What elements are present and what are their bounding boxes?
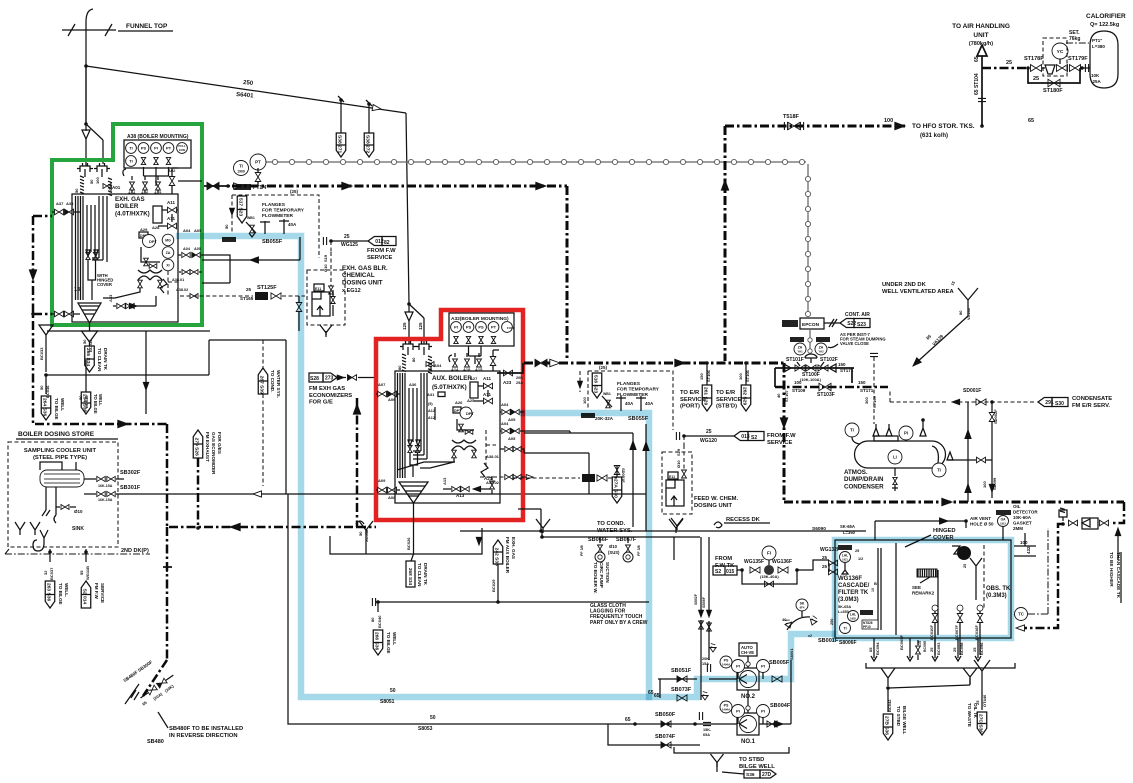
svg-text:L=350: L=350	[838, 610, 849, 614]
svg-text:A04: A04	[501, 402, 509, 407]
svg-text:SAMPLING COOLER UNIT: SAMPLING COOLER UNIT	[24, 448, 97, 454]
svg-text:CONT. AIR: CONT. AIR	[845, 312, 870, 318]
svg-text:A38.02: A38.02	[486, 480, 500, 485]
svg-text:A05: A05	[508, 417, 516, 422]
st125f drop valve	[298, 296, 300, 302]
svg-text:NO.1: NO.1	[741, 739, 756, 745]
sb001 relief manifold	[796, 599, 808, 611]
svg-text:WATER SYS.: WATER SYS.	[276, 370, 281, 398]
funnel inside obs tk	[970, 558, 982, 600]
condensate return heavy line	[783, 363, 786, 502]
svg-text:SERVICE: SERVICE	[100, 583, 105, 603]
boiler fw line from st165	[518, 508, 541, 510]
bottom nozzles	[138, 276, 162, 280]
svg-text:BC040: BC040	[377, 615, 382, 628]
svg-text:DETECTOR: DETECTOR	[1013, 510, 1038, 515]
100/432 dimension	[1014, 546, 1036, 556]
aux dashed internals	[486, 430, 496, 470]
svg-text:50: 50	[224, 224, 229, 229]
svg-text:TO STBD: TO STBD	[896, 706, 901, 727]
svg-text:SB073F: SB073F	[671, 687, 692, 693]
fuel oil line (heavy dash-dot) left side	[33, 216, 167, 424]
svg-text:A06: A06	[388, 397, 396, 402]
svg-text:UNDER 2ND DK: UNDER 2ND DK	[882, 282, 927, 288]
svg-text:264 S36: 264 S36	[41, 398, 47, 417]
svg-text:(3.0M3): (3.0M3)	[838, 597, 859, 603]
svg-text:PI: PI	[736, 709, 740, 714]
svg-text:25: 25	[822, 555, 828, 560]
up arrow to be higher	[1115, 528, 1121, 536]
instrument PI (A38)	[151, 143, 162, 154]
svg-text:TO WASTE: TO WASTE	[967, 703, 972, 727]
blowdown valve pair in boiler	[86, 252, 90, 259]
cooler connections	[40, 462, 76, 515]
black box MB116	[581, 413, 595, 418]
long drain header y531	[460, 530, 866, 532]
svg-text:SINK: SINK	[72, 526, 84, 532]
discharge riser	[790, 660, 792, 724]
svg-text:(631 ko/h): (631 ko/h)	[920, 133, 948, 139]
line to cascade tank	[797, 560, 829, 570]
aux econ coils	[413, 373, 427, 459]
svg-text:25: 25	[344, 234, 350, 240]
valve A38.02 dashed line	[505, 474, 513, 479]
top small valves A14 A16 A15	[123, 169, 126, 176]
aux column piping	[457, 419, 474, 430]
svg-text:266 S36: 266 S36	[373, 632, 379, 651]
svg-text:BC042: BC042	[887, 699, 892, 712]
svg-text:150: 150	[838, 362, 846, 367]
steam outlet A02 to header	[178, 180, 202, 182]
svg-text:A05: A05	[194, 247, 201, 251]
svg-text:PI: PI	[761, 709, 765, 714]
valve after tag 273	[337, 377, 346, 379]
funnel to stbd bilge	[881, 668, 895, 686]
svg-text:SB067F: SB067F	[616, 537, 637, 543]
steam riser from aux boiler junction up to HFO line	[724, 126, 727, 361]
svg-text:TO E/R: TO E/R	[716, 390, 736, 396]
svg-text:TO AIR HANDLING: TO AIR HANDLING	[952, 23, 1010, 30]
sb066f eductor	[598, 545, 603, 553]
svg-text:2ND DK(P): 2ND DK(P)	[121, 548, 149, 554]
svg-text:10K: 10K	[1091, 73, 1100, 78]
svg-text:SB06F: SB06F	[702, 596, 706, 608]
svg-text:REMARK2: REMARK2	[912, 591, 935, 596]
svg-text:A07: A07	[378, 382, 386, 387]
valve T518F	[788, 122, 800, 129]
svg-text:EXH. GAS: EXH. GAS	[511, 537, 516, 559]
sd002f drop	[991, 402, 993, 412]
svg-text:LI: LI	[893, 455, 897, 460]
svg-text:SB050F: SB050F	[655, 712, 676, 718]
aux blowdown valves	[408, 445, 412, 452]
funnel on header 1	[536, 519, 550, 533]
svg-text:ST180F: ST180F	[1043, 88, 1063, 94]
svg-text:FM EXH GAS: FM EXH GAS	[309, 386, 345, 392]
flowmeter flange symbols upper	[260, 219, 289, 234]
feed w chem dosing unit dashed box	[662, 452, 692, 514]
svg-text:5K-65A: 5K-65A	[838, 605, 851, 609]
relief on trap	[1059, 510, 1067, 517]
condenser LI	[888, 450, 902, 464]
check valve circles	[746, 662, 750, 666]
svg-text:TO BILGE: TO BILGE	[93, 394, 98, 414]
svg-text:55: 55	[79, 570, 84, 575]
svg-text:DOSING UNIT: DOSING UNIT	[342, 279, 383, 286]
svg-text:DPT: DPT	[149, 239, 158, 244]
svg-text:SEE: SEE	[912, 585, 921, 590]
svg-text:COVER: COVER	[97, 282, 112, 287]
instrument PI (A32)	[451, 322, 462, 333]
tag S38 272	[364, 133, 374, 157]
instrument PT (A38)	[163, 143, 174, 154]
svg-text:A11: A11	[167, 200, 176, 205]
valve pair A38.01 green	[182, 270, 190, 275]
tag 267 S39 to cond water sys	[262, 340, 264, 368]
svg-text:E11: E11	[669, 475, 675, 479]
svg-text:SERVICE: SERVICE	[716, 397, 741, 403]
line to calorifier heavy	[982, 67, 1028, 70]
svg-text:ST179F: ST179F	[1068, 56, 1088, 62]
svg-text:PART ONLY BY A CREW: PART ONLY BY A CREW	[590, 620, 648, 626]
svg-text:50: 50	[390, 688, 396, 694]
pump instruments no1	[720, 701, 732, 713]
svg-text:(25): (25)	[290, 189, 299, 194]
valve under A38 box	[166, 157, 170, 164]
svg-text:50: 50	[89, 179, 94, 184]
exhaust gas boiler A38 group highlight (green box)	[52, 124, 202, 325]
main vertical line x646 down from sb055f area	[645, 424, 647, 494]
tag 279 S26 fm exhaust gas economizer	[193, 430, 203, 458]
boiler bottom cone	[78, 303, 101, 323]
svg-text:(4.0T/HX7K): (4.0T/HX7K)	[115, 210, 150, 217]
svg-text:FOR G/ES: FOR G/ES	[217, 432, 222, 454]
svg-text:25: 25	[706, 429, 712, 435]
vertical line x633	[632, 433, 634, 527]
svg-text:A37: A37	[56, 201, 64, 206]
to waste oil tk tag	[981, 686, 983, 710]
condenser vessel	[855, 441, 946, 468]
aux top valves	[449, 355, 452, 362]
big Y waste oil	[974, 660, 990, 686]
arrow on diagonal	[372, 104, 381, 112]
svg-text:A01: A01	[112, 185, 121, 190]
svg-text:A28: A28	[152, 225, 160, 230]
svg-text:CIRC PUMP: CIRC PUMP	[599, 562, 604, 588]
aux contact element A38	[177, 143, 188, 154]
dashed enclosure temp flowmeter lower	[588, 371, 673, 430]
svg-text:ZA: ZA	[798, 346, 803, 350]
svg-text:PI: PI	[154, 146, 158, 151]
svg-text:(5): (5)	[428, 402, 433, 406]
svg-text:432: 432	[1026, 546, 1031, 554]
TC instrument	[1015, 608, 1028, 621]
svg-text:AUX. BOILER: AUX. BOILER	[432, 375, 472, 382]
svg-text:(PORT): (PORT)	[680, 404, 700, 410]
svg-text:A05: A05	[194, 228, 202, 233]
from fw service tag 012 82	[368, 237, 382, 246]
svg-text:A11: A11	[483, 376, 492, 381]
svg-text:DRAIN TK: DRAIN TK	[423, 563, 428, 586]
aux blowdown link	[420, 458, 454, 468]
svg-text:25: 25	[1006, 60, 1012, 66]
svg-text:015: 015	[726, 569, 735, 575]
arrowed dashed drops	[579, 371, 581, 392]
svg-text:(0.3M3): (0.3M3)	[986, 593, 1007, 599]
svg-text:ST109: ST109	[872, 395, 877, 408]
branch to second boiler nozzle	[86, 124, 103, 140]
svg-text:TC: TC	[1018, 612, 1024, 617]
svg-text:263 S36: 263 S36	[45, 583, 51, 602]
pipe from WG120	[684, 435, 734, 437]
svg-text:A38.01: A38.01	[172, 278, 184, 282]
auto ch-ve box	[739, 643, 757, 656]
svg-text:SB301F: SB301F	[120, 485, 141, 491]
pump no1 line	[608, 723, 737, 725]
steam line to HFO storage tanks	[725, 125, 905, 128]
svg-text:TO BILGE: TO BILGE	[58, 583, 63, 605]
water column piping	[141, 247, 160, 262]
drain drop arrows under tank	[873, 638, 875, 658]
instrument PT (A32)	[488, 322, 499, 333]
svg-text:PS: PS	[141, 146, 147, 151]
dosing unit feed valve	[329, 286, 334, 294]
aux gauge tubes	[397, 373, 399, 478]
squiggle break	[481, 564, 483, 566]
small valve cluster upper	[250, 225, 255, 233]
svg-text:FUNNEL TOP: FUNNEL TOP	[126, 23, 168, 30]
svg-text:SB066F: SB066F	[588, 537, 609, 543]
svg-text:L=380: L=380	[1092, 44, 1105, 49]
svg-text:A04: A04	[183, 247, 191, 251]
cascade bottom collection bracket	[866, 663, 1015, 668]
svg-text:SB302F: SB302F	[120, 470, 141, 476]
tag 242 S35 fm aux boiler	[497, 576, 499, 602]
float switch assembly left	[838, 545, 852, 550]
tank internal dividers	[895, 543, 897, 635]
valve A13 pair	[452, 486, 460, 491]
svg-text:S38 271: S38 271	[336, 135, 342, 154]
valve under A32 box	[466, 336, 470, 343]
svg-text:254 S36: 254 S36	[81, 394, 87, 413]
svg-text:WB1: WB1	[603, 392, 611, 396]
aux boiler shell	[395, 371, 500, 503]
svg-text:A36: A36	[409, 382, 417, 387]
dashed enclosure temp flowmeter upper	[232, 195, 319, 258]
svg-text:DRAIN TK: DRAIN TK	[103, 348, 108, 371]
valve under A32 box	[454, 336, 458, 343]
down arrow on dashed drop	[230, 208, 235, 215]
aux water tubes	[408, 388, 410, 442]
valve under A32 box	[491, 336, 495, 343]
svg-text:279 S26: 279 S26	[193, 438, 199, 457]
svg-text:40A: 40A	[288, 222, 297, 227]
svg-text:ZA: ZA	[166, 251, 171, 255]
steam dumping valve train	[775, 367, 854, 369]
svg-text:(STB'D): (STB'D)	[716, 404, 737, 410]
epcon to valves signal	[809, 329, 811, 352]
svg-text:6F4: 6F4	[800, 606, 805, 610]
svg-text:ST109: ST109	[792, 388, 806, 393]
svg-text:A32(BOILER MOUNTING): A32(BOILER MOUNTING)	[451, 316, 509, 322]
svg-text:50: 50	[82, 339, 87, 344]
condenser relief	[920, 428, 926, 436]
condenser drain valve	[894, 468, 896, 476]
steam outlet to A23	[497, 363, 523, 373]
drop to TO E/R SERVICE PORT	[706, 363, 708, 385]
svg-text:ST178F: ST178F	[1024, 56, 1044, 62]
svg-text:CASCADE/: CASCADE/	[838, 583, 870, 589]
filter hatched element	[917, 569, 937, 577]
aux boiler nozzles	[400, 341, 416, 350]
valve under A38 box	[141, 157, 145, 164]
svg-text:25: 25	[929, 647, 934, 652]
valve A01	[103, 184, 111, 189]
svg-text:A29: A29	[140, 227, 148, 232]
level gauge tube	[878, 548, 881, 630]
svg-text:A04: A04	[501, 421, 509, 426]
svg-text:S6090: S6090	[812, 526, 826, 532]
svg-text:FM EXHAUST: FM EXHAUST	[205, 432, 210, 462]
svg-text:BC094: BC094	[875, 642, 880, 655]
svg-text:WG136F: WG136F	[838, 576, 862, 582]
highlighted branch SB055F to cascade (blue)	[523, 413, 649, 697]
svg-text:FROM F.W: FROM F.W	[367, 248, 396, 254]
svg-text:1494A: 1494A	[722, 708, 730, 712]
svg-text:TO STBD: TO STBD	[739, 757, 764, 763]
svg-text:FLANGES: FLANGES	[262, 202, 286, 208]
svg-text:A13: A13	[442, 477, 447, 485]
A32 boiler mounting box	[449, 313, 514, 346]
svg-text:FI: FI	[767, 551, 771, 556]
black box MB126	[222, 237, 236, 242]
svg-text:27B S36: 27B S36	[883, 716, 889, 735]
svg-text:BC098: BC098	[959, 642, 964, 655]
safety valve springs	[80, 176, 84, 195]
svg-text:A15: A15	[475, 367, 483, 372]
valve A02 aux top right	[490, 357, 496, 366]
valve ST178F	[1026, 66, 1030, 70]
svg-text:25: 25	[246, 287, 252, 292]
pump instruments no2	[720, 656, 732, 668]
svg-text:BC033: BC033	[39, 347, 44, 360]
svg-text:100: 100	[794, 380, 802, 385]
svg-text:OIL TK: OIL TK	[973, 703, 978, 719]
condenser PI	[899, 426, 913, 440]
svg-text:EXH. GAS BLR.: EXH. GAS BLR.	[342, 265, 388, 272]
svg-text:TO E/R: TO E/R	[680, 390, 700, 396]
funnel stack lower segment	[85, 66, 87, 124]
drop from drain header to tags	[673, 537, 675, 560]
to stbd bilge well bracket	[674, 747, 789, 753]
funnel BC035 under boiler cone	[82, 331, 98, 342]
valve A33 pair with arrow	[117, 303, 125, 308]
oil detector instrument	[996, 510, 1011, 515]
svg-text:100: 100	[982, 481, 987, 488]
svg-text:FEED W. CHEM.: FEED W. CHEM.	[694, 496, 739, 502]
sd099 drain down to heavy header	[991, 460, 993, 498]
svg-text:TO CLEAN: TO CLEAN	[417, 563, 422, 587]
epcon box	[800, 318, 824, 329]
aux boiler A32 group highlight (red box)	[376, 310, 523, 520]
svg-text:A38.02: A38.02	[176, 288, 188, 292]
aux safety springs	[402, 354, 406, 373]
svg-text:25: 25	[822, 564, 828, 569]
svg-text:B: B	[874, 581, 877, 586]
valves bottom left A31 A30	[55, 311, 64, 317]
fuel line lower left to SB480	[166, 527, 169, 660]
svg-text:65A: 65A	[703, 733, 710, 737]
svg-text:SUCTION: SUCTION	[605, 562, 610, 583]
svg-text:XI: XI	[166, 263, 169, 267]
boiler steam nozzle left	[77, 163, 93, 172]
svg-text:A23: A23	[503, 380, 512, 385]
instrument TI row2 (A38)	[126, 156, 137, 167]
sampling cooler vessel	[40, 470, 84, 487]
svg-text:WELL: WELL	[60, 398, 65, 411]
funnel under dosing unit	[320, 325, 332, 337]
svg-text:BC095: BC095	[923, 641, 927, 652]
valve under PT	[255, 173, 261, 182]
svg-text:BILGE WELL: BILGE WELL	[739, 764, 775, 770]
svg-text:15A: 15A	[702, 662, 709, 666]
svg-text:ST125F: ST125F	[257, 285, 277, 291]
svg-text:PT1": PT1"	[1092, 38, 1102, 43]
svg-text:ST103F: ST103F	[817, 392, 835, 398]
pump no2	[709, 678, 737, 680]
svg-text:10: 10	[871, 588, 875, 592]
svg-text:GASKET: GASKET	[1013, 521, 1032, 526]
temperature control valve with TC	[1052, 43, 1068, 59]
drain piping under aux boiler	[330, 528, 482, 554]
svg-text:OT440: OT440	[982, 694, 987, 707]
dashed box condenser area	[889, 390, 891, 402]
svg-text:WG136F: WG136F	[772, 559, 792, 565]
svg-text:300: 300	[864, 397, 869, 404]
svg-text:A26: A26	[455, 400, 463, 405]
svg-text:PI: PI	[736, 664, 740, 669]
svg-text:25: 25	[1033, 76, 1039, 82]
drain line horizontal y375	[46, 374, 209, 376]
drop to bilge well tag	[49, 549, 51, 562]
a13 line to header	[540, 509, 542, 531]
lines from aux boiler right to headers	[524, 430, 570, 432]
svg-text:A12: A12	[428, 409, 435, 413]
svg-text:1494A: 1494A	[722, 663, 730, 667]
svg-text:S30: S30	[1055, 401, 1064, 407]
svg-text:TO HFO STOR. TKS.: TO HFO STOR. TKS.	[912, 123, 975, 130]
svg-text:TI: TI	[843, 626, 846, 630]
svg-text:TI: TI	[937, 468, 941, 473]
dosing tank internals	[317, 306, 323, 316]
valve under A32 box	[479, 336, 483, 343]
svg-text:(STEEL PIPE TYPE): (STEEL PIPE TYPE)	[33, 455, 87, 461]
svg-text:S2: S2	[715, 569, 721, 575]
svg-text:DOSING UNIT: DOSING UNIT	[694, 503, 732, 509]
svg-text:TO COND.: TO COND.	[597, 521, 626, 527]
wire main gas diagonal 250 S6401	[86, 66, 406, 113]
suction lines from cond water sys	[700, 537, 702, 612]
svg-text:242 S35: 242 S35	[493, 548, 499, 567]
svg-text:S38 272: S38 272	[364, 135, 370, 154]
svg-text:TI: TI	[129, 159, 133, 164]
svg-text:SERVICE: SERVICE	[767, 440, 792, 446]
steam riser down (heavy)	[566, 186, 569, 361]
svg-text:ST107: ST107	[784, 389, 789, 402]
drop to TO E/R SERVICE STBD	[745, 363, 747, 385]
svg-text:BC029: BC029	[491, 579, 496, 592]
svg-text:ST101F: ST101F	[786, 357, 804, 363]
